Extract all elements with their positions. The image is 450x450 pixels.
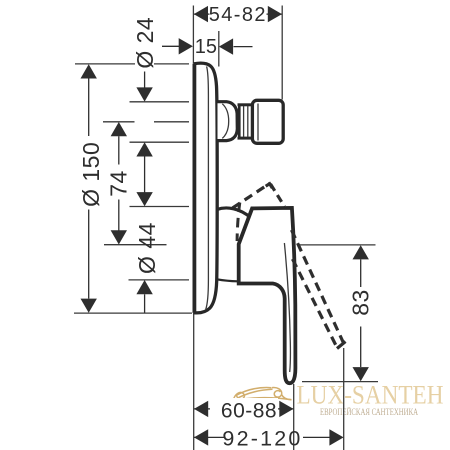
dimension 92-120: [194, 429, 344, 445]
open-handle phantom upper right edge: [271, 184, 285, 207]
extension line open-handle tip: [343, 348, 345, 450]
svg-text:Ø 150: Ø 150: [78, 142, 104, 207]
plate rim contour line: [206, 66, 209, 309]
svg-text:60-88: 60-88: [221, 400, 277, 423]
extension line d74 bottom y245: [104, 244, 167, 246]
dimension 54-82: [194, 6, 282, 22]
extension line stub top y102: [130, 101, 190, 103]
escutcheon plate outer profile: [194, 63, 218, 313]
stub neck ring: [238, 105, 252, 138]
extension line 83 bottom: [302, 381, 378, 383]
svg-text:Ø 44: Ø 44: [134, 222, 160, 274]
stub cylinder contour: [257, 104, 259, 141]
dimension 74: [111, 122, 127, 245]
open-handle phantom tip cap: [337, 342, 346, 349]
svg-text:LUX-SANTEH: LUX-SANTEH: [297, 380, 444, 409]
cartridge stub dome: [218, 102, 238, 141]
dimension D150: [81, 64, 97, 312]
extension line d74 top y121.5: [103, 121, 189, 123]
open-handle phantom back edge: [293, 259, 338, 348]
svg-text:83: 83: [347, 289, 373, 316]
watermark swan flourish: [234, 387, 292, 400]
extension line d44 top y206: [130, 206, 190, 208]
open-handle phantom hidden edge: [237, 203, 240, 242]
open-handle phantom front edge: [292, 230, 345, 344]
handle base dome arc: [217, 208, 251, 218]
dimension 60-88: [194, 401, 294, 417]
extension line plate bottom y313: [74, 312, 192, 314]
wall extension line top: [192, 6, 194, 64]
open-handle phantom upper edge: [233, 184, 270, 209]
wall extension line bottom: [193, 313, 195, 450]
extension line handle front: [293, 384, 295, 450]
extension line d44 bottom y280: [129, 279, 190, 281]
open-handle phantom apex elbow: [266, 184, 273, 188]
lever handle closed position: [239, 208, 296, 383]
svg-text:15: 15: [195, 36, 217, 58]
svg-text:ЕВРОПЕЙСКАЯ САНТЕХНИКА: ЕВРОПЕЙСКАЯ САНТЕХНИКА: [320, 407, 418, 417]
stub outer cylinder: [252, 100, 283, 143]
svg-text:74: 74: [106, 170, 132, 197]
handle base bottom edge: [217, 279, 238, 281]
handle paddle inner edge: [284, 243, 290, 372]
dimension 15: [162, 38, 253, 55]
stub dome contour: [222, 104, 228, 139]
extension line 54-82 right: [281, 6, 283, 100]
svg-text:92-120: 92-120: [222, 426, 302, 450]
extension line 83 top: [299, 244, 376, 246]
svg-text:Ø 24: Ø 24: [132, 17, 158, 69]
dimension 83: [353, 245, 369, 381]
extension line stub bottom y142: [130, 141, 190, 143]
svg-text:54-82: 54-82: [209, 4, 267, 26]
escutcheon plate back edge: [192, 64, 196, 313]
dimension D24 vertical: [136, 72, 152, 313]
extension line plate top y64: [75, 63, 189, 65]
extension line 15 right: [218, 31, 220, 67]
